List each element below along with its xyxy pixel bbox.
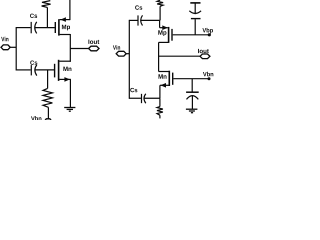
wire bus to bottom capacitor (left) <box>16 69 31 71</box>
node dot Vbn <box>208 77 211 80</box>
wire resistor to Mp gate node (left) <box>46 7 48 27</box>
ground (left) <box>64 108 75 112</box>
wire Mn gate node to resistor (left) <box>47 70 49 89</box>
capacitor Vbn curved plate (right) <box>187 96 199 100</box>
wire Mn source to ground (left) <box>69 79 71 107</box>
capacitor Cs top (left) <box>31 22 37 34</box>
transistor Mp channel bar (left) <box>58 19 60 35</box>
capacitor Cs bottom (right) <box>142 94 146 104</box>
port Iout (left) <box>89 46 99 51</box>
transistor Mp gate bar (left) <box>54 22 56 33</box>
node dot Vbp <box>208 33 211 36</box>
label Vin (right) <box>113 45 120 49</box>
capacitor Vbp lead to rail stub (right) <box>194 3 196 14</box>
label Cs bottom (right) <box>130 88 137 92</box>
transistor Mn drain stub (right) <box>159 71 169 73</box>
wire output node to Iout port (right) <box>159 55 201 57</box>
wire bus to bottom capacitor (right) <box>129 97 141 99</box>
capacitor Vbp flat plate (right) <box>191 18 201 20</box>
wire Vin port to input bus (right) <box>126 53 129 55</box>
capacitor Cs bottom (left) <box>31 65 37 76</box>
transistor Mp source stub with arrow (left) <box>60 19 70 21</box>
label Iout (right) <box>198 49 209 53</box>
label Vin (left) <box>1 37 8 41</box>
port Iout (right) <box>200 54 210 59</box>
label Cs top (left) <box>30 14 37 18</box>
transistor Mp channel bar (right) <box>168 27 170 43</box>
transistor Mn channel bar (right) <box>168 71 170 86</box>
label Mp (left) <box>62 25 70 31</box>
wire bus to top capacitor (right) <box>129 19 137 21</box>
wire resistor to Mp source node (right) <box>159 6 161 20</box>
capacitor Vbp bypass lower lead (right) <box>194 19 196 35</box>
transistor Mp source stub with arrow (right) <box>160 27 168 29</box>
wire to Iout port (left) <box>70 48 89 50</box>
transistor Mp gate bar (right) <box>171 29 173 41</box>
resistor top (right) <box>157 0 163 6</box>
capacitor Vbn lead to ground (right) <box>191 96 193 109</box>
label Vbp <box>202 28 213 34</box>
resistor top (left) <box>42 1 51 8</box>
wire Mp source up to top edge (left) <box>69 0 71 20</box>
label Cs top (right) <box>135 5 142 9</box>
ground (right) <box>186 109 198 113</box>
label Mp (right) <box>158 30 166 36</box>
transistor Mn channel bar (left) <box>58 60 60 81</box>
wire input bus vertical (right) <box>128 20 130 99</box>
wire Mn source down to bottom source node (right) <box>159 85 161 98</box>
wire capacitor to bottom source node (right) <box>144 97 160 99</box>
label Mn (right) <box>159 74 167 78</box>
wire resistor to Vbn port (left) <box>47 107 49 118</box>
wire capacitor to Mp source node (right) <box>141 19 160 21</box>
label Mn (left) <box>63 67 71 71</box>
wire capacitor to Mn gate (left) <box>35 69 54 71</box>
label Vbn (left) <box>31 116 41 121</box>
port Vbn (left, clipped at bottom edge) <box>44 119 51 124</box>
resistor bottom (left) <box>43 88 52 107</box>
wire input bus vertical (left) <box>15 27 17 70</box>
wire source node to resistor (right) <box>159 98 161 106</box>
transistor Mn source stub with arrow (right) <box>160 84 169 86</box>
capacitor Vbp curved plate (right) <box>189 11 201 14</box>
wire resistor to bottom edge (right) <box>159 115 161 118</box>
wire Mp gate to Vbp node (right) <box>173 34 210 36</box>
wire capacitor to Mp gate (left) <box>35 27 55 29</box>
label Cs bottom (left) <box>30 60 37 64</box>
port Vin (left) <box>1 45 10 50</box>
wire bus to top capacitor (left) <box>16 27 30 29</box>
transistor Mn gate bar (left) <box>54 64 56 78</box>
capacitor Vbn flat plate (right) <box>186 91 199 93</box>
label Vbn (right) <box>203 72 213 77</box>
port Vin (right) <box>116 51 126 56</box>
transistor Mp drain stub (right) <box>159 41 169 43</box>
transistor Mn gate bar (right) <box>172 73 174 85</box>
rail stub T (right top) <box>190 2 200 4</box>
transistor Mp drain stub (left) <box>60 34 71 36</box>
transistor Mn source stub with arrow (left) <box>59 78 71 80</box>
wire Mp drain down to Mn drain (right) <box>158 42 160 71</box>
wire Mn gate to Vbn node (right) <box>173 78 209 80</box>
transistor Mn drain stub (left) <box>59 60 71 62</box>
capacitor Cs top (right) <box>138 15 143 25</box>
wire output node vertical (left) <box>69 34 71 62</box>
capacitor Vbn bypass upper lead (right) <box>191 79 193 92</box>
resistor bottom (right) <box>157 107 163 116</box>
label Iout (left) <box>88 40 99 44</box>
wire source node down to Mp source stub (right) <box>159 20 161 27</box>
wire Vin port to input bus (left) <box>10 46 16 48</box>
